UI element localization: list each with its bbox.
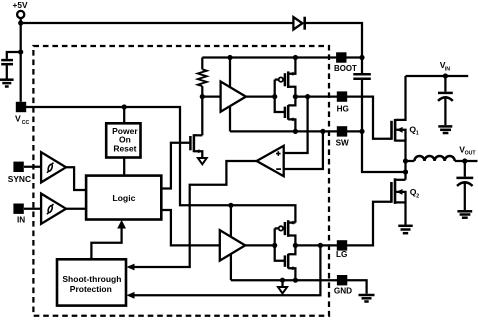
- svg-text:SYNC: SYNC: [8, 174, 31, 184]
- svg-text:BOOT: BOOT: [334, 64, 357, 73]
- svg-text:1: 1: [416, 131, 419, 137]
- svg-text:HG: HG: [337, 104, 349, 113]
- svg-text:Logic: Logic: [112, 193, 135, 203]
- svg-text:Reset: Reset: [113, 143, 136, 153]
- svg-text:LG: LG: [336, 250, 347, 259]
- svg-text:GND: GND: [334, 286, 352, 295]
- svg-text:V: V: [15, 114, 21, 124]
- svg-text:Protection: Protection: [70, 284, 112, 294]
- svg-text:2: 2: [416, 194, 419, 200]
- svg-text:Shoot-through: Shoot-through: [62, 274, 121, 284]
- svg-text:OUT: OUT: [465, 151, 477, 157]
- svg-text:IN: IN: [17, 215, 25, 224]
- svg-text:SW: SW: [336, 139, 349, 148]
- svg-text:CC: CC: [22, 120, 30, 126]
- svg-text:IN: IN: [445, 66, 450, 72]
- svg-text:+5V: +5V: [13, 0, 28, 10]
